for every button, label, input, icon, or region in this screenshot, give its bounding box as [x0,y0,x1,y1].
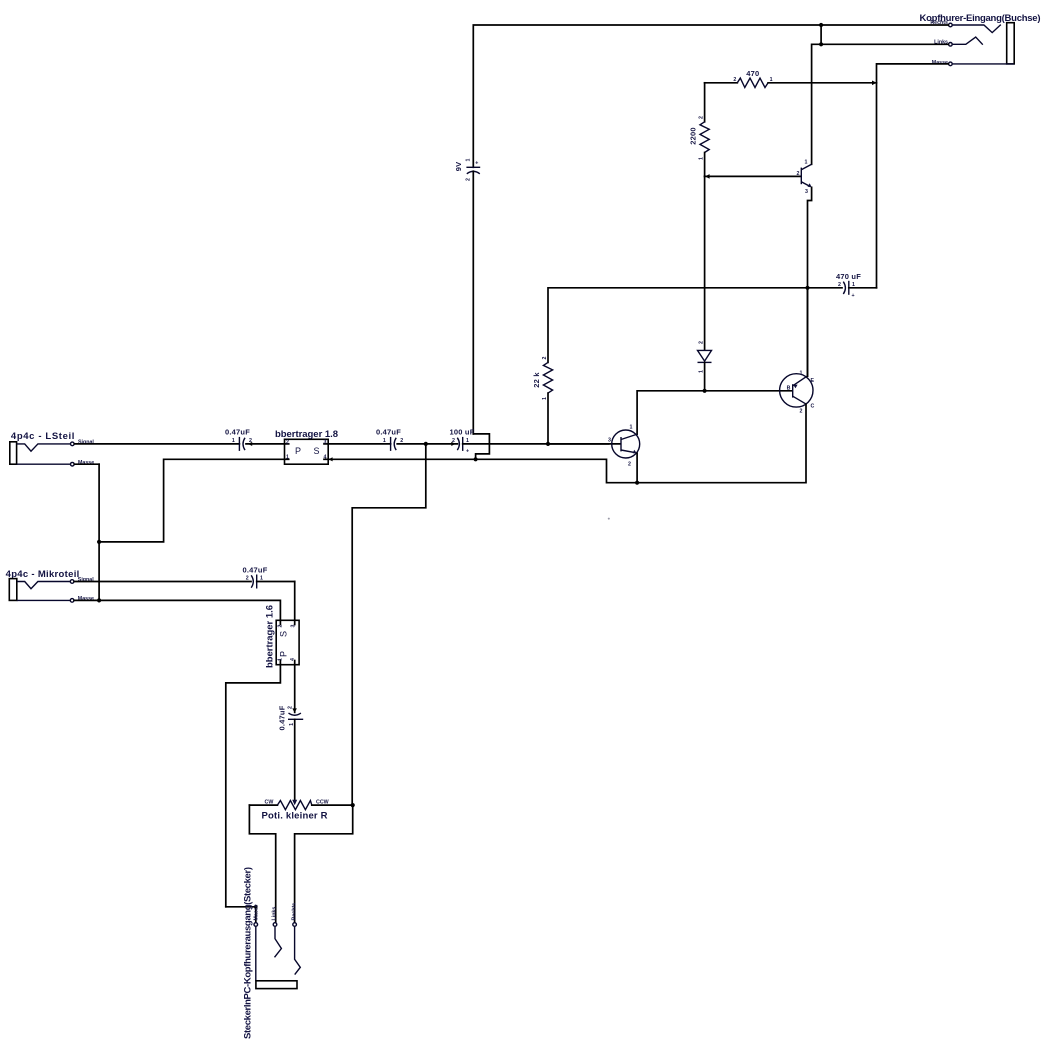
wire poti left terminal down [249,805,275,922]
svg-text:100 uF: 100 uF [450,428,475,437]
label S of TR1 [314,446,320,456]
svg-text:470 uF: 470 uF [836,272,861,281]
svg-text:1: 1 [466,438,469,444]
junction top rail to Links drop [819,23,823,27]
svg-text:0.47uF: 0.47uF [278,705,287,730]
title bbertrager 1:8 [275,429,338,440]
wire plug masse link [226,907,256,922]
pin 1 label of Q2 [630,425,633,431]
pin 1 of Q3 [800,371,803,377]
transformer TR2 bbertrager 1:6 [276,620,299,664]
svg-text:Masse: Masse [78,460,94,466]
pin 2 of C1 [249,438,252,444]
pin 1 of Q1 [805,160,808,166]
pin 1 of TR2 [278,658,284,661]
svg-text:2: 2 [246,576,249,582]
svg-text:C: C [811,404,815,410]
svg-text:1: 1 [770,77,773,83]
battery B1 9V [466,167,480,434]
svg-text:1: 1 [286,454,289,460]
label Links [934,39,948,45]
marker at C3 pin 2 [451,442,455,446]
junction at plug masse [254,905,258,909]
svg-text:3: 3 [324,439,327,445]
wire J3 signal to cap C4 [74,581,251,583]
svg-text:1: 1 [852,282,855,288]
svg-text:4: 4 [290,658,296,661]
connector J3 body [9,579,16,601]
wire TR2 left return to plug masse [226,665,281,907]
diode D1 [698,350,712,390]
svg-text:3: 3 [291,625,297,628]
value label 100 uF [450,428,475,437]
capacitor C2 0.47uF [391,437,458,451]
J2 Signal contact [17,442,75,451]
pin 4 of TR2 [290,658,296,661]
wire signal rail to Q2 base [548,443,621,445]
pin 1 of 2200 [699,157,705,160]
label Signal of J2 [78,440,94,446]
svg-text:2: 2 [249,438,252,444]
plus mark of B1 [475,160,478,166]
pin 1 of D1 [699,370,705,373]
J3 Masse contact [17,599,74,603]
resistor 470 [705,78,877,87]
connector J1 jack body [1007,23,1015,64]
title Poti. kleiner R [262,811,328,822]
label CW [265,800,274,806]
svg-text:9V: 9V [454,162,463,172]
svg-text:1: 1 [542,397,548,400]
pin 1 of C3 [466,438,469,444]
potentiometer P1 [249,800,352,810]
value label 22 k [532,372,541,388]
label Masse of J3 [78,596,94,602]
svg-text:1: 1 [383,438,386,444]
value label 2200 [689,127,698,145]
pin 1 of B1 [466,159,472,162]
junction 22k to signal rail [546,442,550,446]
label S of TR2 [279,631,289,637]
J2 Masse contact [17,462,75,466]
svg-text:CW: CW [265,800,274,806]
connector J1 title Kopfhurer-Eingang(Buchse) [920,13,1041,24]
wire Links feed to Q1 collector [812,44,949,164]
svg-text:1: 1 [232,438,235,444]
value label 0.47uF C4 [243,565,268,574]
J1 pin Masse contact [949,62,1015,66]
label Links of J4 [271,907,277,921]
svg-text:0.47uF: 0.47uF [376,428,401,437]
svg-text:2: 2 [800,409,803,415]
pin 1 of 22k [542,397,548,400]
pin 4 of TR1 [324,454,327,460]
pin 2 of D1 [699,341,705,344]
label C of Q3 [811,404,815,410]
pin 2 of TR1 [286,439,289,445]
capacitor C1 0.47uF [239,437,284,451]
stray mark [608,518,610,520]
value label 0.47uF C5 [278,705,287,730]
svg-text:S: S [314,446,320,456]
wire Q3 emitter up [807,288,809,376]
svg-text:bbertrager 1.6: bbertrager 1.6 [265,605,276,668]
pin 2 of C4 [246,576,249,582]
svg-text:P: P [295,446,301,456]
junction poti right with feed [351,803,355,807]
junction 470 to Masse vertical [872,81,877,86]
wire J2 masse down [74,464,99,600]
value label 470 [746,69,759,78]
pin 1 of 470uF [852,282,855,288]
svg-text:2: 2 [286,439,289,445]
pin 2 of C3 [452,438,455,444]
svg-text:Masse: Masse [254,904,260,920]
svg-text:+: + [466,449,469,455]
svg-text:2: 2 [733,77,736,83]
wire TR2 right to cap C5 [294,665,296,713]
transformer TR1 bbertrager 1:8 [285,439,329,464]
junction emitter line to 470uF [805,286,809,290]
junction signal rail to poti feed [424,442,428,446]
wire 2200 to diode [704,176,706,349]
svg-text:P: P [279,651,289,657]
wire TR1 secondary return to Q3 collector [328,404,806,482]
pin 1 of C1 [232,438,235,444]
pin 2 of TR2 [278,625,284,628]
svg-text:E: E [811,378,815,384]
pin 3 label of Q2 [608,438,611,444]
pin 3 of TR1 [324,439,327,445]
label Masse of J4 [254,904,260,920]
junction J2 masse drop on J3 masse [97,598,101,602]
connector J4 title SteckerInPC-Kopfhurerausgang(Stecker) [243,867,254,1039]
svg-text:S: S [279,631,289,637]
wire 22k top to 470uF [548,288,808,363]
wire Q2 emitter to bottom rail [636,453,638,482]
junction battery to lower rail [474,457,478,461]
label Rechts [930,20,948,26]
svg-text:SteckerInPC-Kopfhurerausgang(S: SteckerInPC-Kopfhurerausgang(Stecker) [243,867,254,1039]
svg-text:1: 1 [289,723,295,726]
svg-text:3: 3 [608,438,611,444]
label Signal of J3 [78,577,94,583]
svg-text:2: 2 [287,706,293,709]
pin 1 of C4 [260,576,263,582]
svg-text:2: 2 [699,341,705,344]
svg-text:0.47uF: 0.47uF [225,428,250,437]
svg-text:2: 2 [400,438,403,444]
wire C4 to TR2 [294,582,296,621]
resistor 22k [543,362,552,444]
value label 0.47uF C2 [376,428,401,437]
svg-text:Masse: Masse [932,60,948,66]
svg-text:1: 1 [805,160,808,166]
capacitor C4 0.47uF [251,575,295,589]
svg-text:+: + [852,293,855,299]
wire Links drop [820,25,822,44]
J4 pin Rechts [293,923,300,975]
pin 2 of 22k [542,357,548,360]
svg-text:1: 1 [699,370,705,373]
transistor Q3 [780,374,813,407]
label Masse [932,60,948,66]
J4 pin Masse [254,923,258,981]
svg-text:1: 1 [260,576,263,582]
wire Q2 collector to Q3 base [637,391,792,434]
label P of TR2 [279,651,289,657]
connector J4 body [256,981,297,989]
pin 2 of Q1 [797,171,800,177]
wire J3 masse to TR2 [74,600,280,620]
svg-text:0.47uF: 0.47uF [243,565,268,574]
svg-text:+: + [475,160,478,166]
pin 2 label of Q2 [628,462,631,468]
svg-text:3: 3 [805,189,808,195]
svg-text:Links: Links [271,907,277,921]
pin 3 of TR2 [291,625,297,628]
transistor Q2 [612,430,640,458]
J3 Signal contact [17,580,74,589]
label E of Q3 [811,378,815,384]
junction left masse [97,540,101,544]
wire battery minus jog to lower rail [473,434,489,459]
pin 2 of B1 [466,178,472,181]
svg-text:4p4c - LSteil: 4p4c - LSteil [11,431,75,442]
pin 2 of 470uF [838,282,841,288]
svg-text:2: 2 [466,178,472,181]
plus mark of 470uF [852,293,855,299]
capacitor 470uF [808,281,877,295]
pin 1 of C5 [289,723,295,726]
wire Masse feed vertical [877,64,949,288]
value label 470 uF [836,272,861,281]
svg-text:2200: 2200 [689,127,698,145]
svg-text:4: 4 [324,454,327,460]
connector J3 title 4p4c - Mikroteil [6,569,80,580]
marker at TR1 pin 4 [329,457,333,461]
title bbertrager 1:6 [265,605,276,668]
svg-text:1: 1 [630,425,633,431]
transistor Q1 [801,164,811,187]
svg-text:1: 1 [800,371,803,377]
svg-text:2: 2 [278,625,284,628]
svg-text:1: 1 [278,658,284,661]
wire TR1 to cap C2 [328,443,390,445]
pin 3 of Q1 [805,189,808,195]
svg-text:22 k: 22 k [532,372,541,388]
connector J2 body [10,442,17,464]
wire poti feed from signal rail [352,444,426,805]
plus mark of C3 [466,449,469,455]
value label 9V [454,162,463,172]
pin 2 of 470 [733,77,736,83]
J1 pin Links contact [949,37,983,46]
svg-text:bbertrager 1.8: bbertrager 1.8 [275,429,338,440]
wire Q1 emitter down to Q3 emitter [808,187,812,376]
connector J2 title 4p4c - LSteil [11,431,75,442]
wire poti right terminal down [295,805,353,922]
svg-text:2: 2 [699,116,705,119]
svg-text:Rechts: Rechts [291,903,297,921]
junction D1 to Q3 base rail [703,389,707,393]
label B of Q3 [787,386,791,392]
svg-text:1: 1 [466,159,472,162]
svg-text:2: 2 [797,171,800,177]
wire J2 signal to cap C1 [74,443,239,445]
junction Links wire [819,42,823,46]
pin 2 of Q3 [800,409,803,415]
svg-text:2: 2 [542,357,548,360]
J1 pin Rechts contact [949,23,1001,32]
svg-text:Masse: Masse [78,596,94,602]
label P of TR1 [295,446,301,456]
capacitor C3 100uF [457,437,608,451]
J4 pin Links [273,923,281,958]
pin 2 of 2200 [699,116,705,119]
capacitor C5 0.47uF vertical [288,708,303,800]
svg-text:470: 470 [746,69,759,78]
svg-text:1: 1 [699,157,705,160]
wire TR1 primary return to left [99,459,284,542]
svg-text:2: 2 [838,282,841,288]
value label 0.47uF C1 [225,428,250,437]
svg-text:CCW: CCW [316,800,329,806]
label Rechts of J4 [291,903,297,921]
svg-text:B: B [787,386,791,392]
resistor 2200 [700,83,709,177]
svg-text:Poti. kleiner R: Poti. kleiner R [262,811,328,822]
pin 1 of 470 [770,77,773,83]
wire V+ top rail from battery to Rechts [473,25,948,167]
pin 2 of C2 [400,438,403,444]
wire Q1 base [705,175,801,177]
svg-text:2: 2 [628,462,631,468]
pin 1 of TR1 [286,454,289,460]
label Masse of J2 [78,460,94,466]
marker wire-end arrow at 2200 junction [705,174,710,179]
pin 2 of C5 [287,706,293,709]
label CCW [316,800,329,806]
junction Q2 emitter on bottom rail [635,481,639,485]
pin 1 of C2 [383,438,386,444]
